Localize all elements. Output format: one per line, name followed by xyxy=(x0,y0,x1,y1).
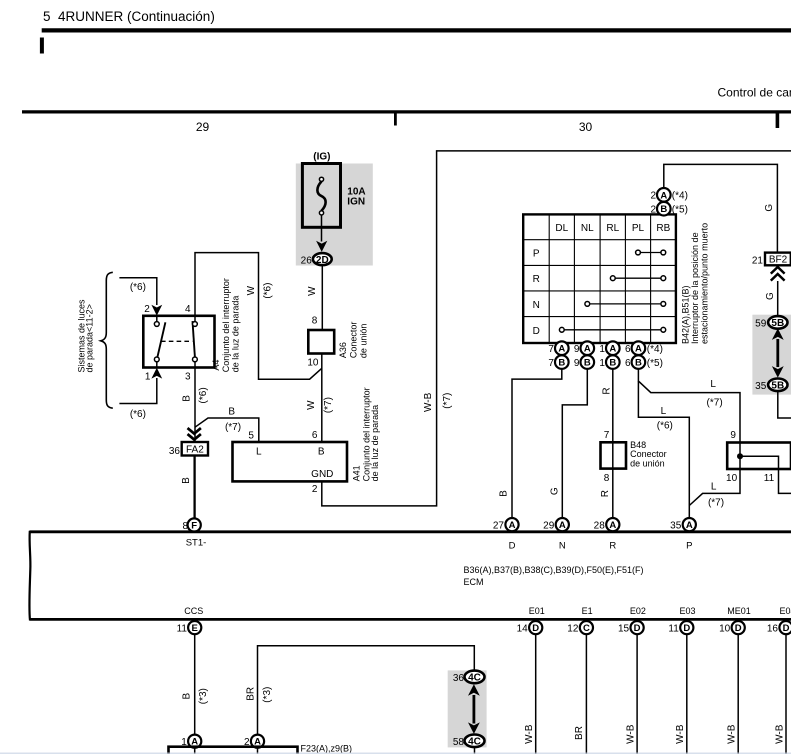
svg-text:14: 14 xyxy=(517,624,529,635)
svg-text:G: G xyxy=(550,487,561,495)
svg-text:Conector: Conector xyxy=(348,322,358,359)
gray highlight 4C xyxy=(448,670,487,747)
wire 15D down xyxy=(636,634,638,754)
connector 59(5B) xyxy=(755,316,787,329)
svg-text:W-B: W-B xyxy=(675,724,686,744)
label 10A IGN xyxy=(347,187,365,208)
contact row P xyxy=(636,250,666,255)
terminal 58(4C) xyxy=(453,735,485,748)
svg-text:W-B: W-B xyxy=(774,724,785,744)
svg-text:A36: A36 xyxy=(338,342,348,358)
svg-text:10: 10 xyxy=(307,358,319,369)
relay box pins 9 10 11 xyxy=(727,443,791,470)
svg-text:(*3): (*3) xyxy=(198,688,209,704)
svg-text:A41: A41 xyxy=(352,465,362,481)
wire GND W-B run xyxy=(322,151,791,506)
wire 6B branch L (*6) xyxy=(638,381,689,518)
svg-text:5B: 5B xyxy=(771,381,784,392)
svg-text:8: 8 xyxy=(604,473,610,484)
svg-text:1: 1 xyxy=(145,371,151,382)
wire 6B branch L (*7) xyxy=(638,369,740,443)
svg-text:5 4RUNNER (Continuación): 5 4RUNNER (Continuación) xyxy=(43,9,215,24)
svg-text:(*6): (*6) xyxy=(130,409,146,420)
ground box F23 xyxy=(169,747,298,754)
svg-text:(*5): (*5) xyxy=(647,358,663,369)
wire 11D down xyxy=(686,634,688,754)
wire FA2 to ST1 xyxy=(193,456,195,519)
svg-text:1: 1 xyxy=(599,358,605,369)
terminal 28(A) R xyxy=(594,518,620,552)
wire 12C down xyxy=(585,634,587,754)
arrow down 4C xyxy=(468,722,480,734)
svg-text:A: A xyxy=(609,520,616,531)
terminal 8(F) ST1- xyxy=(182,518,206,548)
svg-text:N: N xyxy=(559,541,566,552)
svg-text:E04: E04 xyxy=(780,606,791,616)
terminal 2(A) xyxy=(650,188,687,202)
svg-text:21: 21 xyxy=(752,256,764,267)
svg-text:IGN: IGN xyxy=(347,196,365,207)
svg-text:P: P xyxy=(686,541,692,552)
svg-text:B: B xyxy=(609,358,616,369)
arrow down 5B xyxy=(772,366,784,378)
svg-text:E1: E1 xyxy=(582,606,593,616)
terminal 1(A) xyxy=(181,735,201,749)
svg-text:D: D xyxy=(783,623,790,634)
svg-text:59: 59 xyxy=(755,318,767,329)
svg-text:ECM: ECM xyxy=(464,577,484,587)
wire 2A to BF2 xyxy=(664,164,778,252)
svg-text:B: B xyxy=(499,490,510,497)
svg-text:(*6): (*6) xyxy=(263,283,274,299)
svg-text:A: A xyxy=(635,344,642,355)
park/neutral position switch table B42 xyxy=(523,214,676,343)
wire junction to pin 11 xyxy=(740,456,791,493)
junction dot xyxy=(737,453,743,459)
svg-text:5: 5 xyxy=(248,431,254,442)
arrow into pin 2 xyxy=(151,305,162,316)
svg-text:9: 9 xyxy=(730,430,736,441)
svg-text:6: 6 xyxy=(625,344,631,355)
svg-text:4: 4 xyxy=(185,304,191,315)
svg-text:W-B: W-B xyxy=(727,724,738,744)
terminal 36(4C) xyxy=(453,671,485,684)
wire stub (*6) top xyxy=(119,278,156,305)
svg-text:W-B: W-B xyxy=(524,724,535,744)
svg-text:A: A xyxy=(686,520,693,531)
svg-text:1: 1 xyxy=(599,344,605,355)
svg-text:FA2: FA2 xyxy=(186,445,204,456)
section tick left xyxy=(40,38,44,54)
wire through relay pin9 to pin10 xyxy=(689,443,740,506)
svg-text:R: R xyxy=(600,490,611,497)
title rule xyxy=(42,28,791,32)
svg-text:(IG): (IG) xyxy=(313,152,330,163)
svg-text:estacionamiento/punto muerto: estacionamiento/punto muerto xyxy=(700,223,710,344)
svg-text:RB: RB xyxy=(656,223,670,234)
svg-text:6: 6 xyxy=(625,358,631,369)
brace stop light system xyxy=(101,272,113,408)
svg-text:CCS: CCS xyxy=(184,606,203,616)
stop light switch A4 box xyxy=(143,316,214,368)
chevrons BF2 xyxy=(771,267,785,281)
svg-text:C: C xyxy=(583,623,590,634)
svg-text:36: 36 xyxy=(169,446,181,457)
svg-text:2: 2 xyxy=(144,304,150,315)
terminal 35(A) P xyxy=(670,518,696,552)
svg-text:(*6): (*6) xyxy=(657,421,673,432)
svg-text:F23(A),z9(B): F23(A),z9(B) xyxy=(301,744,353,754)
svg-text:28: 28 xyxy=(594,521,606,532)
terminal row B under table xyxy=(548,355,663,369)
svg-text:RL: RL xyxy=(606,223,619,234)
terminal 10(D) xyxy=(719,621,745,635)
svg-text:L: L xyxy=(711,482,717,493)
wire 2D to A36 xyxy=(321,265,323,330)
svg-text:B36(A),B37(B),B38(C),B39(D),F5: B36(A),B37(B),B38(C),B39(D),F50(E),F51(F… xyxy=(464,565,644,575)
svg-text:2: 2 xyxy=(650,191,656,202)
svg-text:BR: BR xyxy=(246,687,257,701)
gray highlight fuse xyxy=(296,164,373,266)
terminal 2(B) xyxy=(650,202,687,216)
svg-text:P: P xyxy=(533,249,540,260)
svg-text:L: L xyxy=(661,406,667,417)
svg-text:36: 36 xyxy=(453,673,465,684)
svg-text:26: 26 xyxy=(301,255,313,266)
ECM box left edge xyxy=(29,531,30,621)
svg-text:Control de cambios: Control de cambios xyxy=(718,86,791,100)
terminal 27(A) D xyxy=(493,518,519,552)
label B48 Conector de union xyxy=(630,440,667,469)
wire 16D down xyxy=(785,634,787,754)
terminal row A under table xyxy=(548,341,663,355)
wire 14D down xyxy=(535,634,537,754)
svg-text:Interruptor de la posición de: Interruptor de la posición de xyxy=(690,232,700,344)
svg-text:D: D xyxy=(634,623,641,634)
wire 1B to 28A xyxy=(612,369,614,518)
connector 35(5B) xyxy=(755,379,787,392)
arrow out of pin 1 xyxy=(151,368,162,379)
svg-text:W-B: W-B xyxy=(423,392,434,412)
svg-text:W: W xyxy=(246,285,257,295)
svg-text:(*7): (*7) xyxy=(225,422,241,433)
svg-text:7: 7 xyxy=(548,344,554,355)
label B42(A),B51(B) Interruptor xyxy=(681,223,710,344)
svg-text:G: G xyxy=(764,204,775,212)
svg-text:W-B: W-B xyxy=(625,724,636,744)
svg-text:5B: 5B xyxy=(771,318,784,329)
junction connector B48 xyxy=(601,442,627,468)
svg-text:B42(A),B51(B): B42(A),B51(B) xyxy=(681,285,691,344)
svg-text:B: B xyxy=(318,447,325,458)
svg-text:11: 11 xyxy=(764,473,775,484)
svg-text:10: 10 xyxy=(719,624,731,635)
svg-text:L: L xyxy=(256,447,262,458)
svg-text:B: B xyxy=(228,406,235,417)
wire 9B to 29A xyxy=(562,369,587,518)
svg-text:W: W xyxy=(306,400,317,410)
svg-text:10: 10 xyxy=(726,473,738,484)
link line 4C xyxy=(472,695,475,724)
svg-text:E03: E03 xyxy=(679,606,695,616)
ECM box top line xyxy=(30,530,791,533)
svg-text:6: 6 xyxy=(312,430,318,441)
svg-text:(*7): (*7) xyxy=(442,393,453,409)
svg-text:G: G xyxy=(765,292,776,300)
wire A36 to A41 xyxy=(321,354,323,443)
wire BF2 to 5B xyxy=(777,281,779,316)
label Conjunto del interruptor de la luz de parada xyxy=(362,387,380,481)
terminal 11(E) xyxy=(177,621,202,635)
svg-text:BF2: BF2 xyxy=(769,254,788,265)
ECM box bottom line xyxy=(30,618,791,621)
svg-text:NL: NL xyxy=(581,223,594,234)
arrow up 4C xyxy=(468,684,480,696)
svg-text:B: B xyxy=(181,477,192,484)
svg-text:A4: A4 xyxy=(211,360,221,371)
terminal 11(D) xyxy=(668,621,693,635)
chevrons FA2 xyxy=(188,428,201,440)
svg-text:B: B xyxy=(182,693,193,700)
svg-text:(*7): (*7) xyxy=(708,497,724,508)
stop light switch assembly A41 box xyxy=(233,442,348,481)
svg-text:A: A xyxy=(559,520,566,531)
svg-text:A: A xyxy=(584,344,591,355)
contact row N xyxy=(585,302,666,307)
svg-text:B: B xyxy=(660,204,667,215)
wire 58 4C down xyxy=(474,747,476,754)
svg-text:11: 11 xyxy=(668,624,679,635)
svg-text:12: 12 xyxy=(567,624,579,635)
wire stub (*6) bottom xyxy=(119,378,156,404)
connector 2D xyxy=(313,253,332,266)
svg-text:9: 9 xyxy=(574,344,580,355)
contact row D xyxy=(559,327,665,332)
svg-text:B: B xyxy=(182,395,193,402)
svg-text:2: 2 xyxy=(312,484,318,495)
wire 11E to 1A xyxy=(194,634,196,734)
svg-text:(*6): (*6) xyxy=(198,387,209,403)
svg-text:7: 7 xyxy=(604,430,610,441)
terminal 14(D) xyxy=(517,621,543,635)
terminal 29(A) N xyxy=(543,518,569,552)
connector BF2 xyxy=(765,253,791,266)
gray highlight 5B xyxy=(752,315,791,395)
arrow up 5B xyxy=(772,328,784,340)
svg-text:3: 3 xyxy=(185,371,191,382)
connector FA2 xyxy=(182,442,208,456)
svg-text:8: 8 xyxy=(312,315,318,326)
wire B branch to A41 xyxy=(195,418,259,442)
terminal 2(A) xyxy=(244,735,264,749)
wire pin4 W branch xyxy=(195,253,322,380)
column rule xyxy=(22,110,791,113)
svg-text:(*4): (*4) xyxy=(672,191,688,202)
terminal 12(C) xyxy=(567,621,593,635)
svg-text:D: D xyxy=(532,623,539,634)
svg-text:D: D xyxy=(683,623,690,634)
svg-text:D: D xyxy=(509,541,516,552)
terminal 16(D) xyxy=(767,621,791,635)
svg-text:4C: 4C xyxy=(468,737,481,748)
svg-text:de parada<11-2>: de parada<11-2> xyxy=(85,304,95,372)
svg-text:35: 35 xyxy=(755,381,767,392)
arrow into 2D xyxy=(316,241,327,252)
svg-text:de la luz de parada: de la luz de parada xyxy=(370,405,380,482)
ECM name text xyxy=(464,565,644,587)
svg-text:GND: GND xyxy=(311,469,333,480)
svg-text:F: F xyxy=(191,520,197,531)
svg-text:29: 29 xyxy=(543,521,555,532)
svg-text:PL: PL xyxy=(632,223,645,234)
svg-text:(*6): (*6) xyxy=(130,282,146,293)
svg-text:(*3): (*3) xyxy=(262,687,273,703)
fuse IGN 10A xyxy=(302,164,340,228)
svg-text:4C: 4C xyxy=(468,673,481,684)
svg-text:29: 29 xyxy=(196,120,210,134)
svg-text:7: 7 xyxy=(548,358,554,369)
svg-text:(*7): (*7) xyxy=(707,397,723,408)
svg-text:de unión: de unión xyxy=(359,324,369,359)
svg-text:de la luz de parada: de la luz de parada xyxy=(230,296,240,373)
label Sistemas de luces de parada xyxy=(76,299,94,373)
page bottom edge line xyxy=(0,752,791,754)
switch coupling dashed xyxy=(161,340,192,342)
svg-text:W: W xyxy=(307,286,318,296)
svg-text:N: N xyxy=(533,300,540,311)
svg-text:(*4): (*4) xyxy=(647,344,663,355)
svg-text:DL: DL xyxy=(555,223,568,234)
svg-text:2D: 2D xyxy=(316,255,329,266)
svg-text:A: A xyxy=(660,190,667,201)
svg-text:L: L xyxy=(710,379,716,390)
switch contact left xyxy=(154,322,165,362)
svg-text:35: 35 xyxy=(670,521,682,532)
svg-text:D: D xyxy=(533,326,540,337)
switch contact right xyxy=(193,321,198,362)
svg-text:ME01: ME01 xyxy=(727,606,751,616)
svg-text:(*5): (*5) xyxy=(672,205,688,216)
label A36 Conector de union xyxy=(338,322,369,359)
svg-text:A: A xyxy=(609,344,616,355)
svg-text:16: 16 xyxy=(767,624,779,635)
svg-text:11: 11 xyxy=(177,624,188,635)
svg-text:58: 58 xyxy=(453,737,465,748)
column tick 30 xyxy=(394,114,397,126)
svg-text:E: E xyxy=(192,623,198,634)
svg-text:B: B xyxy=(635,358,642,369)
svg-text:A: A xyxy=(509,520,516,531)
label Conjunto del interruptor de la luz de parada xyxy=(221,278,240,372)
contact row R xyxy=(610,276,665,281)
svg-text:A: A xyxy=(558,344,565,355)
svg-text:2: 2 xyxy=(650,205,656,216)
svg-text:R: R xyxy=(533,274,540,285)
svg-text:de unión: de unión xyxy=(630,459,665,469)
svg-text:E01: E01 xyxy=(529,606,545,616)
wire 10D down xyxy=(737,634,739,754)
terminal 15(D) xyxy=(618,621,644,635)
column tick right xyxy=(776,114,780,129)
link line 5B xyxy=(776,339,779,367)
svg-text:D: D xyxy=(735,623,742,634)
svg-text:27: 27 xyxy=(493,521,505,532)
svg-text:R: R xyxy=(601,387,612,394)
page title xyxy=(43,9,215,24)
wire 7B to 27A xyxy=(512,369,562,518)
wire 2A to 4C xyxy=(258,646,475,735)
svg-text:E02: E02 xyxy=(630,606,646,616)
wire pin3 B down xyxy=(194,368,196,519)
svg-text:9: 9 xyxy=(574,358,580,369)
svg-text:8: 8 xyxy=(182,521,188,532)
wire 5B exit right xyxy=(778,391,791,418)
svg-text:B: B xyxy=(584,358,591,369)
svg-text:ST1-: ST1- xyxy=(186,538,207,549)
svg-text:R: R xyxy=(609,541,616,552)
svg-text:BR: BR xyxy=(574,726,585,740)
wire fuse to 2D xyxy=(321,215,323,242)
junction connector A36 xyxy=(308,330,334,354)
svg-text:B: B xyxy=(558,358,565,369)
svg-text:30: 30 xyxy=(579,120,593,134)
svg-text:15: 15 xyxy=(618,624,630,635)
svg-text:(*7): (*7) xyxy=(323,397,334,413)
